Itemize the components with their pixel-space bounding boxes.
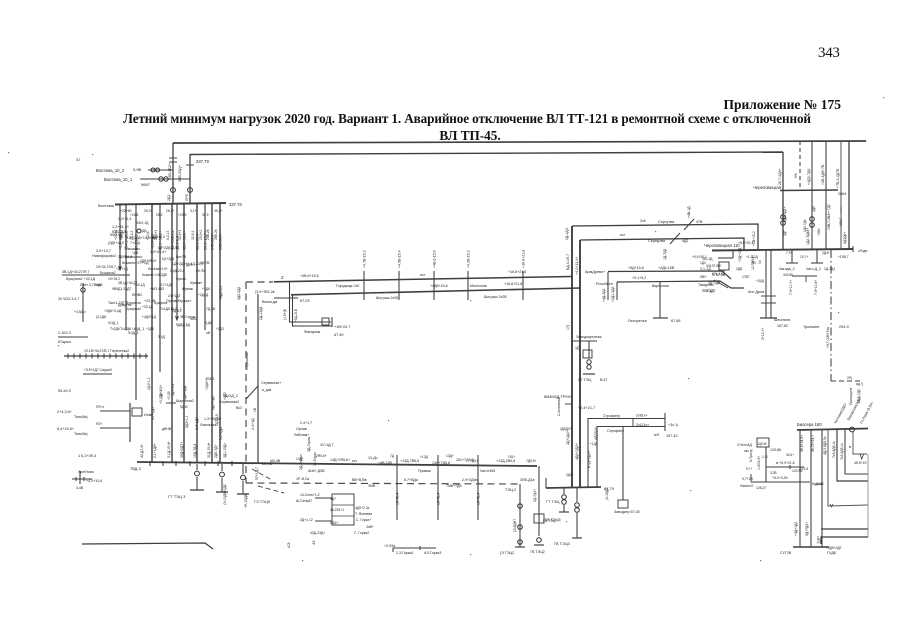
svg-text:294-9: 294-9 [839, 325, 849, 329]
wire feeder drop x136 from Вохтома bus [135, 204, 137, 400]
svg-text:Вохтома_10_1: Вохтома_10_1 [104, 177, 133, 182]
svg-text:+4,3+10,6: +4,3+10,6 [86, 479, 102, 483]
wire Лесоречье bar [659, 282, 661, 318]
breaker circles Вохтома_10_1 [159, 177, 163, 181]
wire link C to Череповецкая [572, 224, 758, 250]
svg-text:+15,2Д5: +15,2Д5 [154, 273, 167, 277]
svg-text:2ДВ: 2ДВ [736, 267, 743, 271]
breakers below line E x783 [781, 215, 786, 220]
svg-text:(3-19Д5: (3-19Д5 [605, 488, 609, 500]
wire Ант Древ pair [765, 250, 767, 318]
svg-text:0,9В: 0,9В [133, 167, 142, 172]
generator stub x243 [242, 464, 244, 474]
svg-text:Строфину: Строфину [603, 414, 620, 418]
svg-text:9В5Д1-23Д7: 9В5Д1-23Д7 [112, 287, 131, 291]
generator stub ГТ ТЭЦ-3 x197 [196, 464, 198, 470]
svg-text:Лесbase1,9+: Лесbase1,9+ [148, 267, 168, 271]
svg-text:120,86: 120,86 [770, 448, 781, 452]
svg-text:1Д-7Д4: 1Д-7Д4 [824, 267, 835, 271]
svg-text:67,68: 67,68 [671, 319, 681, 323]
svg-text:2Д-7Д4+: 2Д-7Д4+ [533, 489, 537, 502]
svg-text:7Д5,6+: 7Д5,6+ [526, 459, 537, 463]
svg-text:Приводине: Приводине [849, 387, 853, 405]
svg-text:32,9+3: 32,9+3 [178, 230, 182, 240]
svg-text:3Д7: 3Д7 [783, 230, 787, 236]
svg-text:+4,5В-15,4: +4,5В-15,4 [398, 250, 402, 268]
svg-text:5Д5-2Д2: 5Д5-2Д2 [237, 287, 241, 300]
svg-text:+ЗД5+2Д2: +ЗД5+2Д2 [826, 546, 842, 550]
svg-text:Читкова(2Д3+: Читкова(2Д3+ [833, 402, 847, 424]
wire feeder drop x160 from Вохтома bus [159, 204, 161, 372]
wire top bus A (220kV ring top) [173, 141, 866, 143]
svg-text:9Д-В: 9Д-В [180, 405, 188, 409]
svg-text:+27+1Д: +27+1Д [116, 267, 128, 271]
wire link D to Череповецкая [580, 238, 744, 250]
svg-text:ЦВ.Ж: ЦВ.Ж [758, 442, 767, 446]
svg-text:151+: 151+ [508, 455, 516, 459]
svg-text:Саркояха2: Саркояха2 [245, 352, 249, 370]
svg-text:Комино: Комино [142, 273, 154, 277]
svg-text:ГТ ТЭЦ 3: ГТ ТЭЦ 3 [168, 494, 186, 499]
svg-text:+4В-1Д: +4В-1Д [687, 206, 691, 218]
svg-text:Д23: Д23 [186, 263, 192, 267]
svg-text:3,1+: 3,1+ [190, 209, 197, 213]
svg-text:Лесоречье: Лесоречье [628, 319, 647, 323]
svg-text:2Д2+: 2Д2+ [566, 473, 574, 477]
wire long drops to Череповецкая bus [840, 141, 842, 249]
disconnector slash on link C [684, 219, 694, 230]
svg-text:34: 34 [752, 261, 756, 265]
svg-text:14Д+: 14Д+ [296, 457, 304, 461]
svg-text:+2Д6-15В: +2Д6-15В [658, 266, 675, 270]
svg-text:2Д-13Д4: 2Д-13Д4 [259, 307, 263, 320]
wire y482 line [751, 481, 810, 483]
svg-text:Кудаж: Кудаж [812, 482, 823, 486]
svg-text:м: м [848, 446, 852, 448]
svg-text:49,75+34,+: 49,75+34,+ [811, 435, 815, 452]
svg-text:19+34,27/8,7: 19+34,27/8,7 [96, 265, 116, 269]
svg-text:ВкЗ: ВкЗ [236, 406, 242, 410]
bottom bar ТЭЦ Биосера [793, 546, 829, 548]
diagonal tie Сервисная [246, 386, 258, 399]
svg-text:ДВ: ДВ [142, 229, 147, 233]
svg-text:9,7+: 9,7+ [746, 467, 752, 471]
svg-text:6Д3Д6+: 6Д3Д6+ [843, 232, 847, 244]
svg-text:2Д1+7Д5: 2Д1+7Д5 [211, 396, 215, 410]
svg-text:Череповецкая: Череповецкая [753, 185, 781, 190]
breaker on x190 [188, 188, 193, 193]
svg-text:СУГ2В: СУГ2В [780, 551, 792, 555]
svg-text:53-х9,3: 53-х9,3 [58, 389, 71, 393]
svg-text:26,7-2Д3+: 26,7-2Д3+ [778, 168, 782, 185]
svg-text:Привож: Привож [418, 469, 431, 473]
svg-text:2: 2 [281, 275, 284, 280]
svg-text:7х5,4Д5,1х: 7х5,4Д5,1х [832, 441, 836, 458]
svg-text:Лвит: Лвит [94, 283, 102, 287]
svg-text:43: 43 [311, 540, 316, 545]
wire feeder drop x120 from Вохтома bus [119, 204, 121, 270]
wire long vertical pair left x572 [571, 226, 573, 487]
svg-text:Тимошино: Тимошино [124, 247, 140, 251]
svg-text:2,1+1Д5+: 2,1+1Д5+ [153, 443, 157, 458]
wire Заводкер drop [622, 427, 624, 501]
svg-text:2-основной: 2-основной [557, 397, 561, 416]
svg-text:ист: ист [420, 273, 426, 277]
svg-text:2Д9-7Д+: 2Д9-7Д+ [214, 445, 218, 458]
svg-text:+4В-3В2+: +4В-3В2+ [168, 162, 172, 180]
svg-text:Гл.Пива (3,84+: Гл.Пива (3,84+ [859, 401, 874, 425]
svg-text:1,4Д-23,4: 1,4Д-23,4 [170, 269, 184, 273]
svg-text:Орлав: Орлав [176, 277, 186, 281]
svg-text:Сервисная2: Сервисная2 [219, 400, 239, 404]
svg-text:Шарченга2: Шарченга2 [176, 399, 194, 403]
svg-text:Бушуиха2: Бушуиха2 [126, 307, 141, 311]
svg-text:5,1+2Д3: 5,1+2Д3 [219, 427, 223, 440]
svg-text:1 6,2+39,3: 1 6,2+39,3 [78, 454, 96, 458]
generator drop x539 [538, 466, 540, 536]
svg-text:3+12,7+: 3+12,7+ [761, 328, 765, 340]
wire stub left of bus3 [545, 478, 547, 488]
svg-text:Фанкряж: Фанкряж [304, 329, 321, 334]
svg-text:1ДЗ+2Д4: 1ДЗ+2Д4 [183, 386, 187, 400]
breaker circle on Биосера bus [850, 427, 855, 432]
wire АрмДрево line F [608, 271, 731, 279]
svg-text:2+4,3,6+: 2+4,3,6+ [57, 410, 73, 414]
svg-text:45,5+19: 45,5+19 [854, 461, 866, 465]
svg-text:1Д-7Д2: 1Д-7Д2 [663, 249, 667, 260]
dash-dot diagonals below lower bus end [252, 469, 272, 480]
generator drop x520 [519, 484, 521, 547]
end bar 2x113 [664, 413, 666, 431]
svg-text:ГВ ТЭЦ: ГВ ТЭЦ [543, 519, 556, 523]
svg-text:(3,1Д8: (3,1Д8 [96, 315, 106, 319]
svg-text:Череповецкая 110: Череповецкая 110 [704, 243, 740, 248]
svg-text:3Д7: 3Д7 [708, 281, 714, 285]
svg-text:(3,9+7В1,2в: (3,9+7В1,2в [255, 290, 275, 294]
svg-text:Сергутва: Сергутва [658, 220, 675, 224]
svg-text:+5,5+20,1: +5,5+20,1 [692, 255, 707, 259]
svg-text:ГЭ ТЭЦ5: ГЭ ТЭЦ5 [254, 500, 270, 504]
svg-text:ад /]: ад /] [856, 382, 863, 386]
wire Тропинка dash-dot [830, 250, 832, 381]
svg-text:+2Д3: +2Д3 [216, 327, 224, 331]
svg-text:м +5,0+21,8: м +5,0+21,8 [776, 461, 795, 465]
svg-text:Строфине: Строфине [607, 429, 624, 433]
wire drop x190 from bus B to Вохтома bus [189, 154, 191, 204]
wire feeder drop x126 from Вохтома bus [125, 204, 127, 330]
svg-text:32,9-3: 32,9-3 [191, 230, 195, 240]
svg-text:Тоньба): Тоньба) [74, 415, 88, 419]
svg-text:Ламченка: Ламченка [200, 423, 216, 427]
svg-text:7,9+10,7+: 7,9+10,7+ [789, 280, 793, 295]
svg-text:9,7+2В: 9,7+2В [742, 477, 754, 481]
wire feeder drop x172 from Вохтома bus [171, 204, 173, 462]
svg-text:Тоньба): Тоньба) [74, 432, 88, 436]
svg-text:2Д-1Д,2: 2Д-1Д,2 [565, 228, 569, 240]
svg-text:157,42: 157,42 [666, 434, 678, 438]
svg-text:42-Д7,4+: 42-Д7,4+ [140, 444, 144, 458]
svg-text:167,82: 167,82 [777, 324, 788, 328]
svg-text:1Д+ЖЗ+: 1Д+ЖЗ+ [159, 385, 163, 398]
svg-text:ЗМВ: ЗМВ [368, 484, 376, 488]
svg-text:9,2-13: 9,2-13 [166, 230, 170, 240]
svg-text:+4,9Д-х: +4,9Д-х [74, 310, 86, 314]
svg-text:+13Д-2В5,6: +13Д-2В5,6 [496, 459, 515, 463]
svg-text:31Д-15,4+: 31Д-15,4+ [207, 442, 211, 458]
svg-text:+2Д4Д: +2Д4Д [198, 293, 209, 297]
svg-text:1Д7+2,4: 1Д7+2,4 [171, 383, 175, 396]
svg-text:3Д1-15Д+: 3Д1-15Д+ [223, 443, 227, 458]
svg-text:2,4+1Д: 2,4+1Д [251, 418, 255, 430]
svg-text:Орлав: Орлав [296, 427, 307, 431]
wire drops from bus A to line E [799, 141, 801, 190]
tap crossing at x523 on double bus [522, 271, 524, 300]
svg-text:126,27: 126,27 [756, 486, 766, 490]
line branch y275 left [62, 274, 130, 276]
svg-text:9Д+7Д3+: 9Д+7Д3+ [805, 522, 809, 536]
svg-text:+5Д+15,8: +5Д+15,8 [628, 266, 644, 270]
load line y356 with ticks [64, 355, 148, 357]
svg-text:Молочная: Молочная [470, 284, 487, 288]
svg-text:28,2+: 28,2+ [166, 209, 174, 213]
svg-text:4Д,5 8Д5,5х: 4Д,5 8Д5,5х [823, 436, 827, 455]
svg-text:7,9+: 7,9+ [786, 251, 793, 255]
bus lower 110 (ТЭЦ-3) left section [137, 462, 537, 466]
svg-text:3,1Д-15,4+: 3,1Д-15,4+ [167, 441, 171, 458]
svg-text:7,9+10,4+: 7,9+10,4+ [814, 280, 818, 295]
svg-text:2Я5,6+: 2Я5,6+ [316, 454, 327, 458]
svg-text:1Р-В,2а: 1Р-В,2а [296, 477, 309, 481]
line branch y337 left [58, 336, 88, 338]
svg-text:3,2В: 3,2В [770, 471, 777, 475]
generator stubs on ТЭЦ bus [563, 488, 565, 494]
svg-text:в_дов: в_дов [262, 388, 272, 392]
svg-text:ЧОД_1: ЧОД_1 [108, 321, 119, 325]
wire dashed loop vertical x246 [245, 282, 247, 483]
svg-text:АрмДрево+: АрмДрево+ [585, 270, 606, 274]
wire top bus B [190, 152, 783, 155]
svg-text:Вохтома_10_2: Вохтома_10_2 [96, 168, 125, 173]
svg-text:ист: ист [620, 233, 626, 237]
svg-text:7Д: 7Д [390, 454, 395, 458]
svg-text:ЮНВ2: ЮНВ2 [132, 293, 142, 297]
svg-text:Вохтома: Вохтома [98, 203, 115, 208]
svg-text:+2Д6: +2Д6 [146, 327, 154, 331]
svg-text:47: 47 [76, 157, 81, 162]
wire feeder drop x205 from Вохтома bus [204, 204, 206, 330]
svg-text:13-Дч: 13-Дч [368, 456, 378, 460]
breaker on x173 [171, 188, 176, 193]
svg-text:+4,2В-15,2: +4,2В-15,2 [467, 250, 471, 268]
svg-text:10,7+: 10,7+ [800, 255, 808, 259]
line Вохтома_10_2 feeder [148, 169, 173, 171]
svg-text:26В-26: 26В-26 [214, 229, 218, 240]
svg-text:+16,6+21,8: +16,6+21,8 [522, 250, 526, 268]
svg-text:Тропкине: Тропкине [803, 325, 819, 329]
svg-text:+7,3-2: +7,3-2 [171, 230, 175, 240]
svg-text:(Э ТЭЦ2: (Э ТЭЦ2 [500, 551, 514, 555]
svg-text:(1,5+(В: (1,5+(В [283, 308, 287, 320]
svg-text:3,9+13,7: 3,9+13,7 [96, 249, 111, 253]
svg-text:+2Д6+3,4Д: +2Д6+3,4Д [104, 309, 122, 313]
svg-text:+33,1Д: +33,1Д [142, 305, 153, 309]
svg-text:19,1В+34,27/В,7 Переченка2: 19,1В+34,27/В,7 Переченка2 [84, 349, 129, 353]
svg-text:АЧ6+-Д5В: АЧ6+-Д5В [308, 469, 325, 473]
svg-text:34: 34 [758, 260, 762, 264]
svg-text:5Д2+1,1: 5Д2+1,1 [185, 415, 189, 428]
svg-text:32,9+36,6+: 32,9+36,6+ [183, 230, 187, 250]
svg-text:69,7В: 69,7В [200, 261, 210, 265]
svg-text:Бушуиха2: Бушуиха2 [100, 271, 116, 275]
svg-text:1Л-7Б,4: 1Л-7Б,4 [477, 493, 481, 505]
svg-text:+5Д-21В: +5Д-21В [294, 308, 298, 322]
wire Рособвен line G [617, 281, 744, 288]
svg-text:(2): (2) [817, 540, 821, 544]
svg-text:+33,1Д: +33,1Д [134, 283, 145, 287]
svg-text:+5,0+3,2В: +5,0+3,2В [772, 476, 788, 480]
svg-text:+4,7В-15,2: +4,7В-15,2 [363, 250, 367, 268]
svg-text:С-ЮЗ-3: С-ЮЗ-3 [58, 331, 71, 335]
svg-text:+7В,3-2Д7Б: +7В,3-2Д7Б [836, 168, 840, 188]
tap crossing at x434 on double bus [433, 271, 435, 300]
svg-text:+5,5+20,1: +5,5+20,1 [738, 241, 753, 245]
svg-text:4Д2: 4Д2 [682, 239, 688, 243]
svg-text:Думрена: Думрена [118, 303, 132, 307]
svg-text:Заводкартонаж: Заводкартонаж [576, 335, 602, 339]
svg-text:+2,4+21,7: +2,4+21,7 [578, 406, 595, 410]
wire L-drop x828 to right [828, 429, 868, 506]
svg-text:3413В: 3413В [783, 273, 794, 277]
svg-text:1,2+31,3: 1,2+31,3 [118, 217, 131, 221]
svg-text:29]: 29] [847, 376, 852, 380]
svg-text:43Д-23Д+: 43Д-23Д+ [310, 531, 325, 535]
svg-text:АЭ: АЭ [286, 542, 291, 548]
wire long vertical pair right x580 [579, 240, 581, 487]
svg-text:30 ЧО2-3,4,7: 30 ЧО2-3,4,7 [58, 297, 79, 301]
svg-text:1-Ж: 1-Ж [762, 455, 768, 459]
svg-text:+4,2+13,4+: +4,2+13,4+ [575, 257, 579, 275]
svg-text:Нянист2: Нянист2 [740, 484, 753, 488]
svg-text:Ш-Сень87: Ш-Сень87 [296, 499, 312, 503]
svg-text:29,2: 29,2 [156, 213, 163, 217]
bus Биосера 180 [797, 429, 868, 431]
svg-text:ТМВ+7ДВ: ТМВ+7ДВ [446, 484, 462, 488]
svg-text:+4Д3+1Д: +4Д3+1Д [142, 315, 157, 319]
svg-text:+3,9+1Д7 СарраЗ: +3,9+1Д7 СарраЗ [84, 368, 112, 372]
wire Фанкряж branch lower [293, 295, 333, 326]
svg-text:Чагода_2: Чагода_2 [779, 267, 795, 271]
svg-text:14Д+2Я5,6+: 14Д+2Я5,6+ [330, 458, 350, 462]
svg-text:69,7В: 69,7В [196, 269, 205, 273]
svg-text:ист: ист [352, 459, 357, 463]
svg-text:1Д2-7Д4: 1Д2-7Д4 [803, 219, 807, 232]
svg-text:(Д: (Д [575, 346, 579, 350]
svg-text:+1В+24,7: +1В+24,7 [334, 325, 350, 329]
svg-text:Городище 2x0: Городище 2x0 [336, 284, 359, 288]
arrow end of feeder x120 [119, 266, 122, 270]
svg-text:4Д5+2,3х: 4Д5+2,3х [355, 506, 370, 510]
svg-text:2,9+2Д9а: 2,9+2Д9а [462, 478, 478, 482]
svg-text:Бушуиха: Бушуиха [154, 301, 167, 305]
svg-text:Середтва: Середтва [648, 239, 666, 243]
svg-text:+4В,6-15,6: +4В,6-15,6 [433, 250, 437, 268]
svg-text:свз: свз [744, 449, 749, 453]
wire L-drop x837 to right [837, 429, 868, 481]
wire 2x113 feeder upper [588, 419, 665, 488]
tap tick on lower bus x232 [231, 461, 233, 466]
disconnector slash on link D [670, 233, 680, 244]
box Фанкряж load [322, 318, 329, 325]
svg-text:7+0,4): 7+0,4) [130, 241, 140, 245]
svg-text:34,5+: 34,5+ [786, 453, 794, 457]
wire feeder drop x184 from Вохтома bus [183, 204, 185, 462]
svg-text:+23,9: +23,9 [178, 213, 187, 217]
wire middle double bus upper [274, 277, 572, 282]
mid verticals below lower bus [396, 455, 398, 520]
wire between Чагода loads [792, 275, 817, 277]
svg-text:1,2+31,3+: 1,2+31,3+ [112, 225, 130, 229]
svg-text:ЧОД_1: ЧОД_1 [128, 331, 139, 335]
svg-text:Чаго Д_1: Чаго Д_1 [806, 267, 821, 271]
svg-text:Хребтово: Хребтово [78, 470, 94, 474]
svg-text:Ант Древ: Ант Древ [748, 290, 764, 294]
svg-text:87щека: 87щека [58, 340, 71, 344]
load Чагода_2 [791, 250, 793, 263]
svg-text:+1Д6: +1Д6 [202, 287, 210, 291]
svg-text:3В-Струж: 3В-Струж [180, 315, 196, 319]
svg-text:17В7,3: 17В7,3 [712, 273, 723, 277]
svg-text:30В-33Д+: 30В-33Д+ [178, 164, 182, 182]
wire right edge vertical join [867, 454, 869, 537]
breaker circle left [81, 288, 85, 292]
tap tick on lower bus x150 [149, 461, 151, 466]
svg-text:(Э-19Д5+2Д2: (Э-19Д5+2Д2 [223, 484, 227, 505]
svg-text:+13Д: +13Д [420, 455, 429, 459]
tap crossing at x364 on double bus [363, 271, 365, 300]
load cluster С.Горка [332, 494, 354, 525]
generator drops from Биосера bus [799, 429, 801, 547]
svg-text:Шекснинс: Шекснинс [774, 318, 791, 322]
svg-text:Вологда: Вологда [262, 299, 278, 304]
svg-text:+2В4: +2В4 [817, 228, 821, 236]
load cluster ЧВ-1Д below bus left [718, 257, 733, 259]
svg-text:9ДВД-6Д: 9ДВД-6Д [176, 323, 191, 327]
svg-text:1,9+25,4+: 1,9+25,4+ [150, 250, 166, 254]
svg-text:39Д+2Д7+: 39Д+2Д7+ [180, 442, 184, 458]
svg-text:+ЖЗ,4В2: +ЖЗ,4В2 [150, 287, 164, 291]
svg-text:Юрваж+: Юрваж+ [190, 281, 203, 285]
wire Лесоречье drops [607, 272, 609, 300]
svg-text:Ц2+2Д5: Ц2+2Д5 [162, 257, 174, 261]
wire vertical x766 cluster [765, 447, 767, 482]
svg-text:Чагот455: Чагот455 [480, 469, 495, 473]
svg-text:ЯЗ+: ЯЗ+ [96, 422, 102, 426]
svg-text:2Д4+: 2Д4+ [822, 251, 830, 255]
load line y374 [83, 373, 112, 375]
bus Череповецкая 110 [712, 249, 853, 251]
svg-text:(2Д5+14,9: (2Д5+14,9 [108, 241, 124, 245]
svg-text:Бушуиха2 +33,1Д: Бушуиха2 +33,1Д [66, 277, 96, 281]
svg-text:+ЗД9-3,1: +ЗД9-3,1 [219, 286, 223, 300]
svg-text:3нВ+: 3нВ+ [366, 525, 374, 529]
load Чагода_1 [816, 250, 818, 263]
svg-text:Сервисная+: Сервисная+ [261, 381, 281, 385]
svg-text:В,47: В,47 [600, 378, 607, 382]
svg-text:31+1Д,7: 31+1Д,7 [320, 443, 334, 447]
svg-text:+1Д6: +1Д6 [204, 321, 212, 325]
svg-text:+1,3-2Д: +1,3-2Д [746, 255, 758, 259]
svg-text:Т. Ясенева: Т. Ясенева [355, 512, 372, 516]
